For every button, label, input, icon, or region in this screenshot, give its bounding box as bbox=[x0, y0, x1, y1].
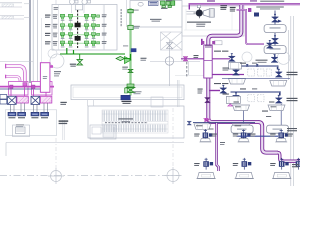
stack valve 3 bbox=[271, 55, 278, 63]
branch mid right bbox=[212, 74, 244, 76]
fan cone bbox=[203, 9, 209, 17]
header2 dashed boxes bbox=[248, 95, 264, 102]
second purple vertical above column bbox=[201, 39, 203, 45]
heat exchanger assembly 2 bbox=[31, 96, 52, 104]
gallery dark dashed line bbox=[105, 122, 148, 124]
stack valve 2 bbox=[272, 36, 279, 44]
green reducer arrow bbox=[125, 57, 132, 64]
building A inner walls bbox=[59, 5, 105, 50]
ejector set 2 bbox=[220, 85, 240, 103]
navy box right bbox=[254, 13, 259, 17]
arrow small right of stack valve1 bbox=[278, 20, 282, 23]
left horizontal navy line bbox=[0, 88, 49, 90]
green main horizontal pipe bbox=[60, 53, 125, 55]
utility line mid vertical bbox=[169, 40, 171, 86]
valve cluster on green main y84-93 bbox=[125, 84, 135, 93]
vertical from mid line bbox=[188, 62, 190, 76]
fan small box above bbox=[197, 5, 200, 8]
drop lines to label boxes bbox=[11, 103, 48, 112]
label box on U pipe bbox=[214, 41, 222, 45]
green main vertical pipe bbox=[130, 8, 132, 96]
flange ticks on main bbox=[205, 45, 212, 47]
room B inner ellipse bbox=[138, 2, 143, 6]
purple thin double vertical x247 bbox=[237, 10, 265, 44]
dark label room B bbox=[149, 1, 159, 5]
magenta valves on main bbox=[10, 85, 13, 88]
survey dashdot line bbox=[0, 175, 180, 177]
road lines top-left bbox=[0, 3, 24, 19]
fittings at top of column bbox=[201, 41, 204, 44]
left yard: small elbow pipe bbox=[6, 77, 20, 87]
tiny valves on header1 bbox=[246, 64, 258, 66]
gray vertical x126 top bbox=[126, 0, 128, 27]
green valve room B line top bbox=[128, 9, 133, 12]
machine room outline bbox=[182, 6, 244, 36]
left yard: column vessel bbox=[40, 63, 50, 93]
exchanger plan rect 2 bbox=[32, 82, 53, 96]
exchanger yard enclosure bbox=[5, 110, 56, 136]
bottom-left small structure bbox=[13, 125, 30, 137]
header2 right valve bbox=[275, 95, 282, 103]
header drop into machine room bbox=[188, 4, 190, 9]
bottom structure right of center bbox=[90, 125, 116, 139]
purple top header bbox=[189, 3, 301, 5]
header2 left valve bbox=[233, 93, 240, 101]
dashdot vertical 1 bbox=[55, 138, 57, 169]
connector ticks bbox=[24, 4, 30, 18]
green branch diamond bbox=[122, 58, 131, 60]
bottom right elbow continuation bbox=[278, 153, 301, 162]
dark valve on main below column bbox=[205, 98, 211, 103]
exchanger plan rect 1 bbox=[9, 82, 29, 96]
stack valve 1 bbox=[272, 14, 279, 22]
black shaft block 1 bbox=[75, 23, 81, 28]
long condensate line bbox=[222, 78, 290, 80]
heater column vessel on main bbox=[204, 45, 212, 78]
ejector set 1 bbox=[228, 54, 241, 69]
blue header 1 bbox=[231, 66, 278, 69]
left horizontal magenta main bbox=[0, 86, 54, 88]
pump row2 bbox=[203, 158, 213, 170]
machine room interior bbox=[184, 9, 242, 30]
thick purple U: vertical right bbox=[208, 5, 278, 153]
stems tank to vessel bbox=[205, 104, 281, 132]
survey circle-cross 2 bbox=[165, 167, 182, 184]
left yard: big elbow pipe bbox=[6, 66, 25, 86]
magenta bits above tank row bbox=[205, 118, 209, 121]
room B outline bbox=[130, 1, 182, 28]
black shaft block 2 bbox=[75, 36, 81, 41]
stack vessel 2 bbox=[264, 46, 286, 54]
valve on green main y26 bbox=[128, 25, 133, 29]
fan: black circle bbox=[196, 10, 203, 17]
navy pipe along tank tops bbox=[193, 122, 255, 124]
header1 left tank bbox=[229, 79, 246, 85]
building A outline bbox=[52, 5, 117, 51]
verticals left of big building bbox=[63, 120, 64, 140]
inner hatched gallery bbox=[102, 110, 168, 133]
header1 left valve bbox=[233, 67, 240, 75]
branch1 to ejector bbox=[212, 58, 230, 60]
purple box on thin header bbox=[248, 8, 251, 11]
magenta valve lower right area bbox=[228, 102, 233, 106]
hatched strip top-left lower bbox=[2, 16, 14, 19]
four label boxes bottom-left bbox=[8, 112, 49, 116]
building A roof fixtures left circle bbox=[69, 0, 74, 4]
pump row1 bbox=[203, 129, 213, 141]
green drop valve on horizontal bbox=[79, 54, 81, 60]
valve on green main y70 bbox=[128, 69, 133, 72]
gray double verticals x35-38 bbox=[33, 0, 37, 86]
tank row trapezoids bbox=[233, 105, 250, 111]
right border double verticals bbox=[289, 16, 294, 186]
band-to-gallery connector bbox=[88, 100, 94, 106]
utility circle symbol bbox=[165, 57, 173, 65]
blue header 2 bbox=[231, 92, 280, 96]
small valve near elbow bbox=[187, 121, 192, 125]
header1 right tank bbox=[270, 81, 287, 87]
left edge boxes bbox=[0, 95, 7, 99]
big building bottom-center bbox=[88, 106, 184, 138]
black shaft dashed line bbox=[77, 10, 79, 48]
building A inner shaft box bbox=[75, 5, 82, 10]
survey circle-cross 1 bbox=[48, 168, 64, 184]
vessel stack right: stem bbox=[274, 11, 276, 59]
green cluster room B bbox=[161, 1, 175, 8]
gallery vertical ticks bbox=[103, 111, 166, 133]
navy utility line vertical x30 bbox=[29, 0, 31, 83]
mid horizontal gray line bbox=[150, 61, 200, 63]
purple drop to bottom pumps bbox=[217, 122, 219, 171]
branch left from main bbox=[181, 58, 204, 60]
hatched strip top-left upper bbox=[2, 4, 14, 7]
stairs block bbox=[161, 32, 183, 50]
magenta stub left of circle bbox=[50, 65, 53, 68]
fan silencer bbox=[209, 9, 214, 18]
dashdot vertical 2 bbox=[172, 108, 174, 168]
header1 right valve bbox=[275, 69, 282, 77]
row2 foundations bbox=[196, 172, 215, 178]
bottom ground line bbox=[6, 142, 184, 144]
building A roof fixtures right circle bbox=[82, 0, 87, 4]
drops to exchangers bbox=[11, 87, 46, 97]
utility bowtie valve bbox=[167, 43, 173, 49]
stack vessel 1 bbox=[264, 25, 286, 33]
tank circle plan left bbox=[50, 54, 64, 68]
branch2 to ejector bbox=[209, 90, 220, 92]
long band building bbox=[71, 85, 184, 100]
horizontal vessels above pumps bbox=[231, 125, 253, 133]
green riser to building A bbox=[67, 48, 74, 54]
pump interconnect line bbox=[237, 135, 279, 137]
blue box on green main bbox=[121, 95, 130, 100]
purple feed valve bbox=[266, 40, 273, 48]
green cluster building A bbox=[60, 14, 100, 45]
hourglass valve bbox=[77, 60, 83, 66]
row1 foundations bbox=[199, 139, 211, 142]
big circle right bbox=[277, 52, 290, 65]
navy box near green line bbox=[131, 48, 137, 52]
heat exchanger assembly 1 bbox=[8, 96, 29, 104]
header1 dashed boxes bbox=[248, 69, 271, 76]
